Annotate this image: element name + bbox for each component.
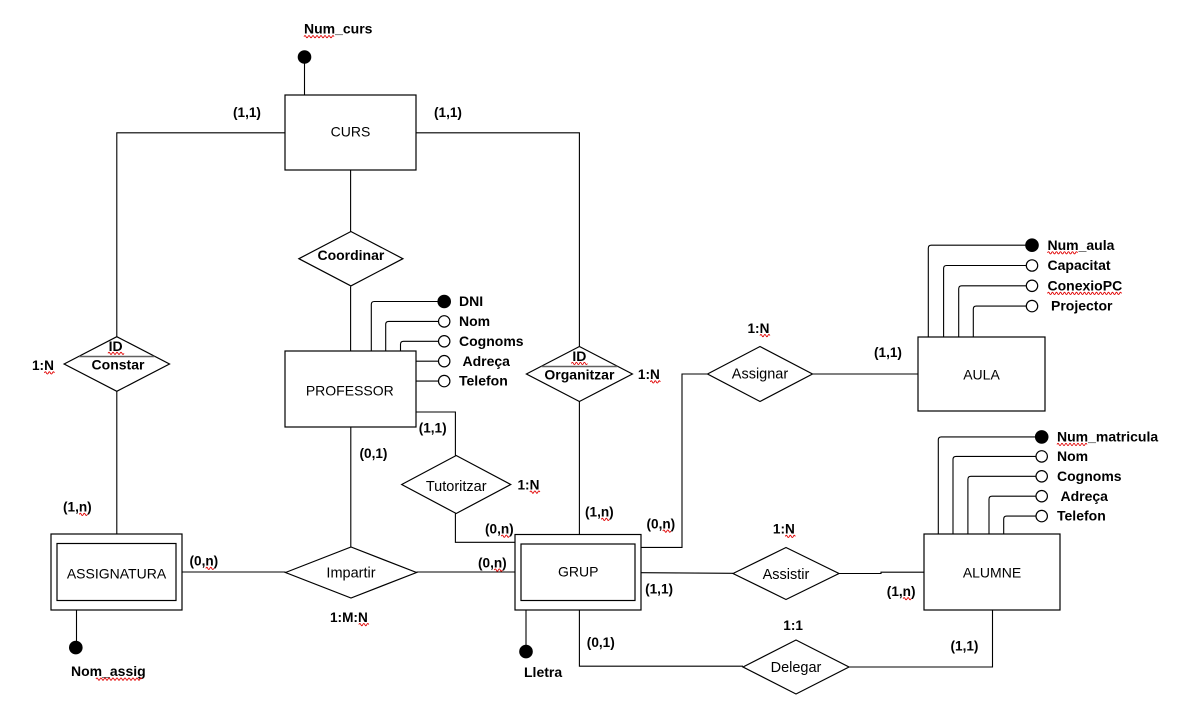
svg-text:1:N: 1:N — [748, 321, 770, 336]
svg-text:(0,n): (0,n) — [190, 554, 219, 569]
svg-text:PROFESSOR: PROFESSOR — [306, 383, 394, 399]
svg-text:Cognoms: Cognoms — [459, 333, 524, 349]
svg-text:CURS: CURS — [331, 124, 371, 140]
svg-text:GRUP: GRUP — [558, 564, 598, 580]
svg-text:1:N: 1:N — [638, 367, 660, 382]
svg-text:Telefon: Telefon — [1057, 508, 1106, 524]
svg-text:(0,1): (0,1) — [587, 635, 615, 650]
svg-text:Nom: Nom — [459, 313, 490, 329]
svg-text:ConexioPC: ConexioPC — [1048, 277, 1123, 293]
svg-text:ALUMNE: ALUMNE — [963, 565, 1021, 581]
svg-text:Tutoritzar: Tutoritzar — [426, 479, 487, 495]
svg-text:Telefon: Telefon — [459, 373, 508, 389]
svg-text:Coordinar: Coordinar — [317, 247, 384, 263]
svg-text:Adreça: Adreça — [463, 353, 511, 369]
svg-text:1:1: 1:1 — [783, 618, 803, 633]
svg-text:(1,n): (1,n) — [585, 505, 614, 520]
svg-text:Constar: Constar — [92, 357, 145, 373]
svg-text:Adreça: Adreça — [1061, 488, 1109, 504]
svg-text:(0,n): (0,n) — [647, 516, 676, 531]
svg-text:(1,n): (1,n) — [63, 500, 92, 515]
svg-text:Num_aula: Num_aula — [1048, 237, 1115, 253]
svg-text:Nom_assig: Nom_assig — [71, 663, 146, 679]
svg-text:1:N: 1:N — [518, 477, 540, 492]
svg-text:(1,1): (1,1) — [645, 581, 673, 596]
svg-text:Cognoms: Cognoms — [1057, 468, 1122, 484]
svg-text:Assistir: Assistir — [763, 567, 810, 583]
svg-text:1:N: 1:N — [773, 522, 795, 537]
svg-text:(1,1): (1,1) — [874, 345, 902, 360]
svg-text:Assignar: Assignar — [732, 367, 789, 383]
svg-text:ID: ID — [572, 348, 586, 364]
svg-text:Lletra: Lletra — [524, 664, 562, 680]
svg-text:(1,1): (1,1) — [434, 105, 462, 120]
svg-text:(1,n): (1,n) — [887, 584, 916, 599]
svg-text:(1,1): (1,1) — [419, 421, 447, 436]
svg-text:1:N: 1:N — [32, 358, 54, 373]
svg-text:ID: ID — [109, 338, 123, 354]
svg-text:Delegar: Delegar — [771, 660, 822, 676]
svg-text:Nom: Nom — [1057, 448, 1088, 464]
svg-text:(0,n): (0,n) — [478, 555, 507, 570]
svg-text:Organitzar: Organitzar — [544, 366, 615, 382]
svg-text:DNI: DNI — [459, 293, 483, 309]
svg-text:(1,1): (1,1) — [951, 639, 979, 654]
svg-text:Num_curs: Num_curs — [304, 21, 373, 37]
svg-text:Num_matricula: Num_matricula — [1057, 429, 1158, 445]
svg-text:(1,1): (1,1) — [233, 105, 261, 120]
svg-text:1:M:N: 1:M:N — [330, 610, 368, 625]
svg-text:Impartir: Impartir — [326, 566, 375, 582]
svg-text:Projector: Projector — [1051, 298, 1113, 314]
svg-text:Capacitat: Capacitat — [1048, 257, 1111, 273]
svg-text:ASSIGNATURA: ASSIGNATURA — [67, 565, 167, 581]
svg-text:(0,1): (0,1) — [360, 446, 388, 461]
svg-text:(0,n): (0,n) — [485, 521, 514, 536]
svg-text:AULA: AULA — [963, 366, 1000, 382]
